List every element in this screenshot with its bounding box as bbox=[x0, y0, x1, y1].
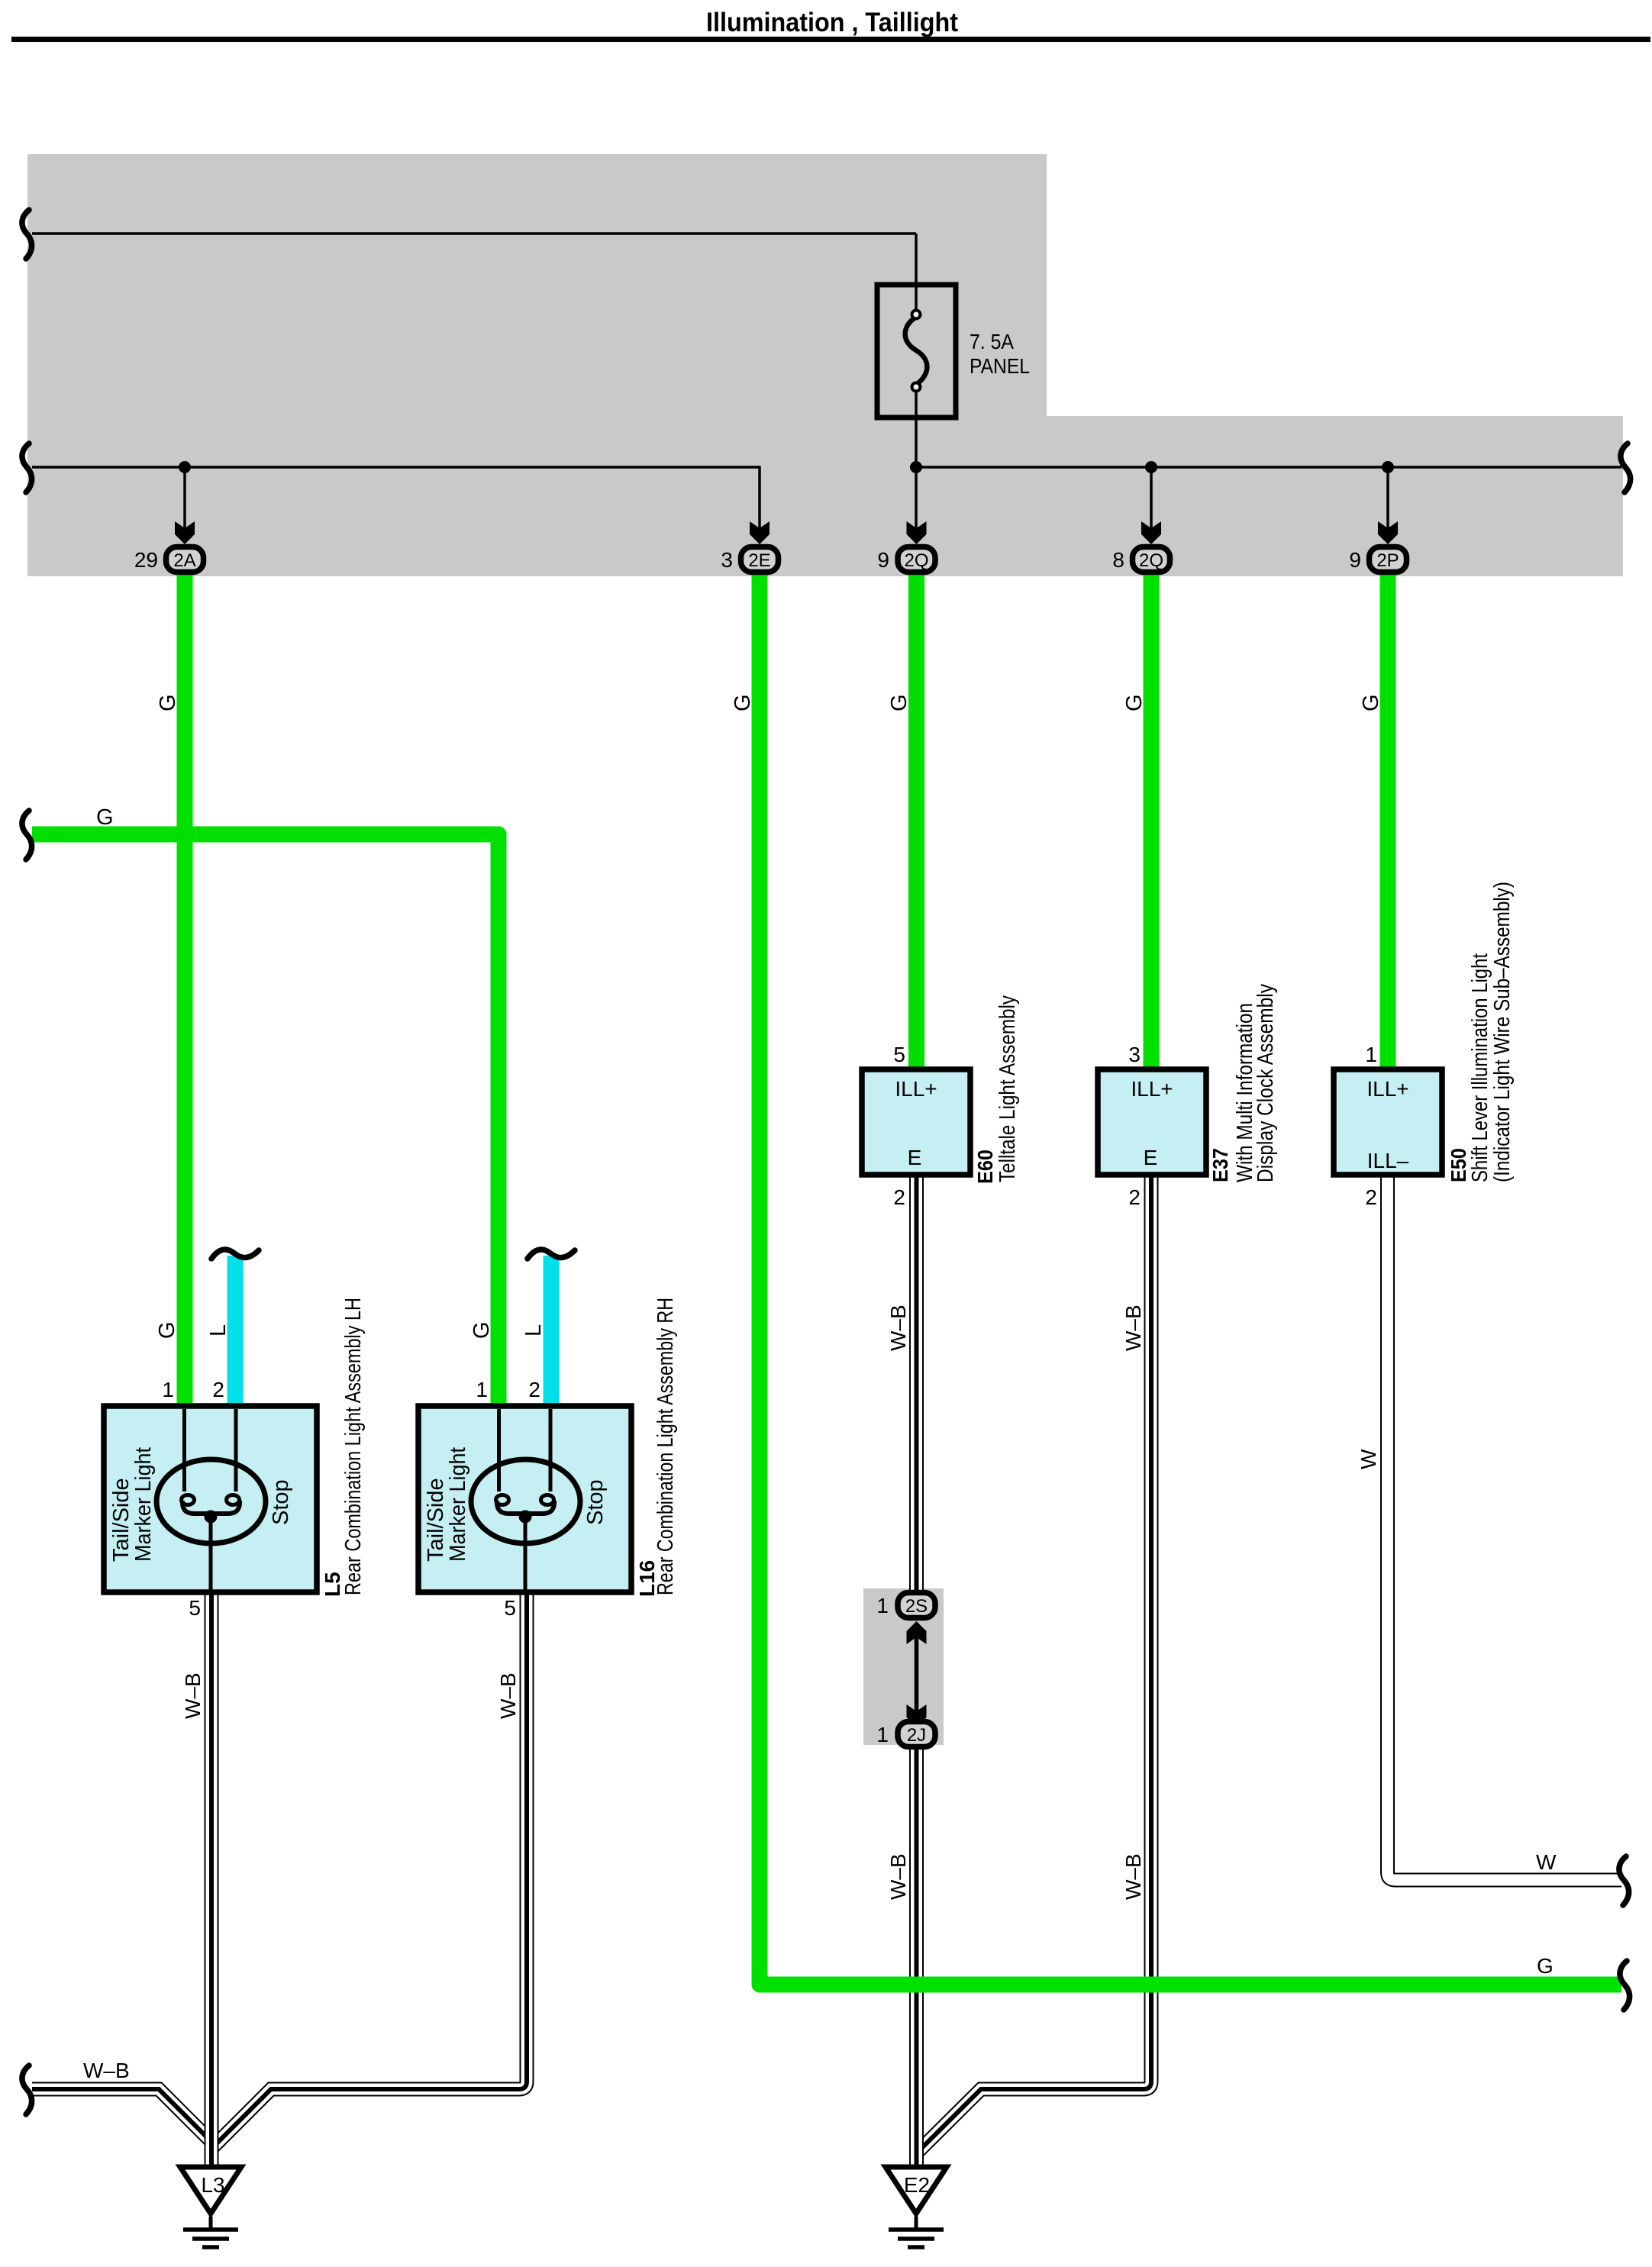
wire break at left of top feed bbox=[22, 210, 32, 259]
svg-text:2: 2 bbox=[528, 1378, 540, 1401]
svg-text:5: 5 bbox=[189, 1596, 201, 1620]
svg-text:ILL+: ILL+ bbox=[1131, 1077, 1173, 1101]
junction dot below fuse bbox=[910, 461, 922, 473]
svg-text:W–B: W–B bbox=[496, 1672, 520, 1719]
svg-text:Rear Combination Light Assembl: Rear Combination Light Assembly LH bbox=[341, 1298, 366, 1595]
arrow down into connector 2J bbox=[907, 1704, 927, 1727]
svg-text:1: 1 bbox=[876, 1723, 889, 1746]
svg-text:E37: E37 bbox=[1208, 1148, 1232, 1182]
svg-text:W–B: W–B bbox=[1121, 1853, 1145, 1900]
wire G from 2A down to L5 pin 1 bbox=[177, 571, 193, 1409]
svg-text:5: 5 bbox=[504, 1596, 516, 1620]
wire L (cyan) to L5 pin 2 bbox=[227, 1256, 244, 1409]
svg-text:1: 1 bbox=[476, 1378, 488, 1401]
junction dot at 2A drop bbox=[179, 461, 191, 473]
arrow into connector 2Q pin 8 bbox=[1141, 521, 1161, 544]
connector 2J bbox=[898, 1722, 935, 1747]
connector 2A bbox=[166, 547, 204, 572]
wire between 2S and 2J bbox=[915, 1623, 919, 1725]
svg-text:L: L bbox=[206, 1324, 231, 1337]
harness shade block right bbox=[1047, 416, 1623, 576]
svg-text:E60: E60 bbox=[973, 1150, 997, 1184]
svg-text:2Q: 2Q bbox=[1139, 550, 1163, 571]
svg-text:L: L bbox=[521, 1324, 546, 1337]
svg-text:2J: 2J bbox=[907, 1725, 926, 1746]
svg-text:G: G bbox=[469, 1321, 494, 1339]
svg-text:PANEL: PANEL bbox=[970, 354, 1030, 378]
wire: drop to 2Q(8) bbox=[1150, 467, 1153, 530]
svg-text:1: 1 bbox=[876, 1594, 889, 1617]
wire break at left of bottom W-B run bbox=[22, 2065, 32, 2114]
wire W-B from page left into ground junction bbox=[32, 2089, 211, 2142]
svg-text:L3: L3 bbox=[201, 2173, 224, 2197]
svg-text:1: 1 bbox=[162, 1378, 174, 1401]
wire W-B from L16 pin 5 to ground junction bbox=[211, 1592, 527, 2149]
svg-text:Tail/Side: Tail/Side bbox=[109, 1478, 134, 1562]
telltale light assembly E60 box bbox=[862, 1069, 970, 1175]
svg-text:G: G bbox=[156, 694, 180, 711]
L5 bulb internals bbox=[156, 1409, 266, 1592]
connector 2Q pin 9 bbox=[898, 547, 935, 572]
wire: drop to 2A bbox=[183, 467, 186, 530]
svg-text:3: 3 bbox=[721, 548, 733, 572]
svg-text:7. 5A: 7. 5A bbox=[970, 330, 1014, 353]
svg-text:G: G bbox=[887, 694, 912, 711]
wire break (tilde) above L16 pin 2 bbox=[528, 1250, 575, 1259]
svg-text:2P: 2P bbox=[1376, 550, 1399, 571]
wire L (cyan) to L16 pin 2 bbox=[544, 1256, 560, 1409]
wire G from 2E long run bbox=[760, 571, 1621, 1985]
fuse 7.5A PANEL bbox=[877, 285, 956, 418]
svg-text:E50: E50 bbox=[1447, 1148, 1470, 1182]
svg-text:Telltale Light Assembly: Telltale Light Assembly bbox=[995, 995, 1020, 1182]
harness shade block left bbox=[27, 154, 1047, 576]
svg-text:9: 9 bbox=[877, 548, 889, 572]
svg-text:2S: 2S bbox=[905, 1596, 928, 1617]
wire G horizontal branch to L16 bbox=[32, 834, 499, 1409]
svg-text:Tail/Side: Tail/Side bbox=[424, 1478, 448, 1562]
L16 bulb internals bbox=[471, 1409, 580, 1592]
svg-text:W: W bbox=[1357, 1449, 1380, 1469]
ground L3 bbox=[180, 2167, 241, 2247]
harness shade block 2S-2J bbox=[863, 1588, 944, 1745]
svg-text:2: 2 bbox=[1365, 1185, 1377, 1209]
connector 2E bbox=[741, 547, 779, 572]
junction dot at 2Q(8) drop bbox=[1145, 461, 1157, 473]
rear combination light assembly LH L5 box bbox=[104, 1406, 317, 1592]
svg-text:Shift Lever Illumination Light: Shift Lever Illumination Light bbox=[1468, 953, 1492, 1182]
wire W-B from E60 pin 2 to connector 2S bbox=[909, 1175, 924, 1590]
wire break at right of bus bbox=[1621, 443, 1631, 492]
svg-text:G: G bbox=[155, 1321, 179, 1339]
svg-text:2E: 2E bbox=[748, 550, 770, 571]
wire: bus right segment bbox=[916, 466, 1621, 469]
svg-text:G: G bbox=[96, 805, 114, 830]
title rule bbox=[11, 37, 1650, 42]
svg-text:Illumination , Taillight: Illumination , Taillight bbox=[706, 8, 958, 37]
svg-text:E2: E2 bbox=[904, 2173, 930, 2197]
svg-text:3: 3 bbox=[1128, 1043, 1141, 1066]
svg-text:Marker Light: Marker Light bbox=[446, 1447, 470, 1562]
rear combination light assembly RH L16 box bbox=[418, 1406, 631, 1592]
svg-text:ILL+: ILL+ bbox=[1366, 1077, 1408, 1101]
ground E2 bbox=[886, 2167, 947, 2247]
svg-text:1: 1 bbox=[1365, 1043, 1377, 1066]
svg-text:Marker Light: Marker Light bbox=[131, 1447, 156, 1562]
display clock assembly E37 box bbox=[1098, 1069, 1206, 1175]
svg-text:W–B: W–B bbox=[83, 2059, 130, 2082]
svg-text:ILL+: ILL+ bbox=[895, 1077, 937, 1101]
wire: fuse output down to bus bbox=[915, 391, 918, 467]
svg-text:G: G bbox=[731, 694, 755, 711]
svg-text:2A: 2A bbox=[173, 550, 195, 571]
wire break at right of W run bbox=[1619, 1856, 1629, 1905]
svg-text:W–B: W–B bbox=[886, 1853, 910, 1900]
svg-text:Stop: Stop bbox=[583, 1479, 608, 1525]
wire: drop to 2P bbox=[1386, 467, 1389, 530]
svg-text:Stop: Stop bbox=[269, 1479, 293, 1525]
svg-text:2: 2 bbox=[1128, 1185, 1141, 1209]
svg-text:2: 2 bbox=[212, 1378, 224, 1401]
svg-text:8: 8 bbox=[1112, 548, 1124, 572]
svg-text:2: 2 bbox=[893, 1185, 905, 1209]
svg-text:W: W bbox=[1536, 1850, 1557, 1874]
svg-text:Display Clock Assembly: Display Clock Assembly bbox=[1254, 984, 1278, 1182]
arrow into connector 2P bbox=[1378, 521, 1398, 544]
wire G from 2Q(9) to E60 bbox=[908, 571, 924, 1072]
svg-text:(Indicator Light Wire Sub–Asse: (Indicator Light Wire Sub–Assembly) bbox=[1490, 882, 1515, 1182]
wire break at left of G branch bbox=[22, 811, 32, 859]
shift lever illumination light E50 box bbox=[1334, 1069, 1442, 1175]
svg-text:G: G bbox=[1359, 694, 1383, 711]
wire: drop to 2Q(9) bbox=[915, 467, 918, 530]
svg-text:9: 9 bbox=[1349, 548, 1361, 572]
wire W from E50 pin 2 to page right bbox=[1388, 1175, 1622, 1880]
svg-text:29: 29 bbox=[134, 548, 158, 572]
arrow up into connector 2S bbox=[907, 1621, 927, 1644]
wire: battery feed top horizontal bbox=[32, 232, 916, 235]
svg-text:W–B: W–B bbox=[886, 1304, 910, 1351]
svg-text:ILL–: ILL– bbox=[1367, 1149, 1409, 1172]
wire W-B from connector 2J to ground E2 bbox=[909, 1749, 924, 2165]
svg-text:E: E bbox=[1144, 1146, 1158, 1169]
connector 2Q pin 8 bbox=[1133, 547, 1170, 572]
junction dot at 2P drop bbox=[1382, 461, 1394, 473]
svg-text:2Q: 2Q bbox=[904, 550, 928, 571]
L16 bulb center contact dot bbox=[519, 1511, 532, 1524]
connector 2S bbox=[898, 1593, 935, 1618]
L5 bulb center contact dot bbox=[205, 1511, 218, 1524]
svg-text:E: E bbox=[908, 1146, 922, 1169]
wire: drop into fuse bbox=[915, 234, 918, 309]
wire W-B from E37 pin 2 to ground junction bbox=[917, 1175, 1152, 2153]
wire: bus left segment to 2E bbox=[32, 467, 760, 530]
wire W-B from L5 pin 5 to ground L3 bbox=[205, 1592, 219, 2165]
svg-text:5: 5 bbox=[893, 1043, 905, 1066]
svg-text:W–B: W–B bbox=[181, 1672, 205, 1719]
connector 2P bbox=[1370, 547, 1407, 572]
svg-text:G: G bbox=[1537, 1954, 1554, 1978]
wire break (tilde) above L5 pin 2 bbox=[211, 1250, 259, 1259]
svg-text:G: G bbox=[1122, 694, 1147, 711]
wire G from 2P to E50 bbox=[1380, 571, 1396, 1072]
arrow into connector 2A bbox=[175, 521, 195, 544]
wire G from 2Q(8) to E37 bbox=[1144, 571, 1160, 1072]
svg-text:W–B: W–B bbox=[1121, 1304, 1145, 1351]
arrow into connector 2Q pin 9 bbox=[907, 521, 927, 544]
arrow into connector 2E bbox=[750, 521, 770, 544]
wire break at left of bus bbox=[22, 443, 32, 492]
wire break at right of G run bbox=[1620, 1961, 1630, 2010]
svg-text:Rear Combination Light Assembl: Rear Combination Light Assembly RH bbox=[653, 1298, 678, 1595]
